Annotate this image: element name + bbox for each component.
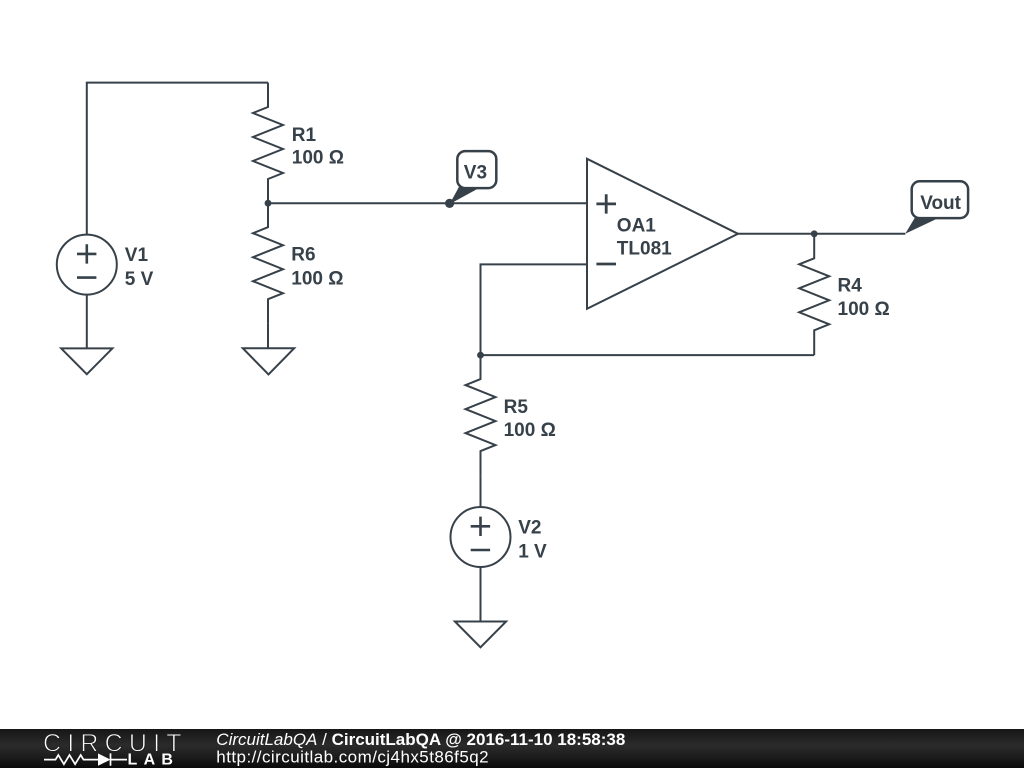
resistor R4 xyxy=(799,234,829,355)
V1 plus sign xyxy=(77,244,96,263)
svg-text:100 Ω: 100 Ω xyxy=(291,269,343,290)
resistor R6 xyxy=(253,203,283,323)
svg-text:R1: R1 xyxy=(292,125,317,146)
resistor R5 xyxy=(466,355,496,475)
ground (below R6) xyxy=(243,348,294,374)
net flag V3 node dot xyxy=(445,199,454,208)
svg-text:CircuitLabQA / CircuitLabQA @: CircuitLabQA / CircuitLabQA @ 2016-11-10… xyxy=(216,730,625,749)
CircuitLab logo resistor-diode symbol xyxy=(44,753,127,765)
resistor R1 xyxy=(253,83,283,204)
net flag Vout box xyxy=(912,181,968,218)
wire feedback node C to op-amp inverting input xyxy=(481,264,588,355)
V2 plus sign xyxy=(471,517,490,536)
svg-text:100 Ω: 100 Ω xyxy=(838,299,890,320)
footer bar xyxy=(0,729,1024,768)
wire op-amp output to Vout flag xyxy=(738,233,905,235)
node A junction dot (R1/R6/wire to op-amp) xyxy=(265,200,272,207)
net flag Vout pointer wedge xyxy=(905,218,938,234)
net flag V3 box xyxy=(457,151,496,188)
wire R6 bottom to ground xyxy=(267,323,269,348)
svg-text:TL081: TL081 xyxy=(617,239,672,260)
ground (below V2) xyxy=(455,622,506,648)
wire V2 bottom to ground xyxy=(480,567,482,622)
voltage source V1 circle xyxy=(57,235,117,295)
svg-text:R6: R6 xyxy=(291,245,315,266)
svg-text:5 V: 5 V xyxy=(125,269,154,290)
op-amp minus input marker xyxy=(596,263,616,266)
svg-text:V1: V1 xyxy=(125,245,149,266)
node B junction dot (output / R4) xyxy=(811,230,818,237)
svg-text:100 Ω: 100 Ω xyxy=(504,420,556,441)
op-amp U1 triangle body xyxy=(587,159,738,309)
node C junction dot (R4 / R5 / feedback) xyxy=(477,352,484,359)
wire R4 bottom to node C xyxy=(481,354,815,356)
voltage source V2 circle xyxy=(451,507,511,567)
wire node A to op-amp non-inverting input xyxy=(268,202,587,204)
wire from V1 plus terminal up and across to R1 top xyxy=(87,83,268,235)
svg-text:V2: V2 xyxy=(518,517,541,538)
svg-text:Vout: Vout xyxy=(920,193,961,214)
svg-text:LAB: LAB xyxy=(128,752,180,768)
svg-text:R5: R5 xyxy=(504,397,529,418)
wire R5 bottom to V2 top xyxy=(480,475,482,507)
svg-text:OA1: OA1 xyxy=(617,215,657,236)
svg-text:R4: R4 xyxy=(838,276,863,297)
svg-text:1 V: 1 V xyxy=(518,541,547,562)
svg-text:http://circuitlab.com/cj4hx5t8: http://circuitlab.com/cj4hx5t86f5q2 xyxy=(216,748,489,767)
ground (below V1) xyxy=(61,348,112,374)
wire V1 bottom to ground xyxy=(86,295,88,349)
net flag V3 pointer wedge xyxy=(450,187,478,204)
svg-text:100 Ω: 100 Ω xyxy=(292,148,344,169)
V1 minus sign xyxy=(77,276,96,279)
V2 minus sign xyxy=(471,549,490,552)
svg-text:V3: V3 xyxy=(464,163,487,184)
op-amp plus input marker xyxy=(596,194,616,213)
